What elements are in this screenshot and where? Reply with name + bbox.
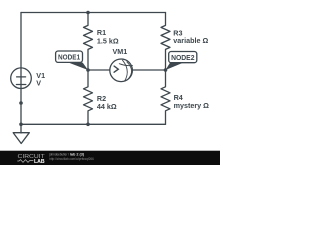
resistor R2: [84, 70, 93, 124]
resistor R1: [84, 13, 93, 71]
svg-text:http://circuitlab.com/c/qefwcq: http://circuitlab.com/c/qefwcqf266: [49, 156, 94, 161]
node A junction: [86, 68, 90, 72]
junction dot top R1: [86, 11, 90, 15]
junction dot bottom R2: [86, 123, 90, 127]
logo zigzag: [17, 160, 33, 163]
junction dot V1 bottom terminal: [19, 101, 23, 105]
wire middle left (node1 to voltmeter): [88, 69, 110, 71]
svg-text:1.5 kΩ: 1.5 kΩ: [97, 36, 119, 45]
wire left vertical through V1: [20, 13, 22, 134]
wire top horizontal: [21, 12, 166, 14]
svg-text:variable Ω: variable Ω: [173, 36, 208, 45]
svg-text:44 kΩ: 44 kΩ: [97, 102, 117, 111]
junction dot bottom left: [19, 123, 23, 127]
svg-text:V: V: [36, 78, 41, 87]
svg-text:VM1: VM1: [113, 47, 128, 56]
voltage source V1: [11, 68, 32, 89]
resistor R4: [161, 70, 170, 124]
wire middle right (voltmeter to node2): [132, 69, 165, 71]
svg-text:LAB: LAB: [34, 159, 45, 165]
wire bottom horizontal: [21, 123, 166, 125]
node NODE2 flag: [166, 52, 197, 71]
svg-text:NODE2: NODE2: [171, 53, 194, 62]
svg-text:mystery Ω: mystery Ω: [174, 101, 210, 110]
footer bar: [0, 151, 220, 166]
svg-text:NODE1: NODE1: [58, 53, 80, 62]
voltmeter VM1: [110, 59, 133, 82]
node B junction: [164, 68, 168, 72]
node NODE1 flag: [56, 51, 88, 70]
resistor R3: [161, 13, 170, 71]
ground: [13, 133, 29, 144]
